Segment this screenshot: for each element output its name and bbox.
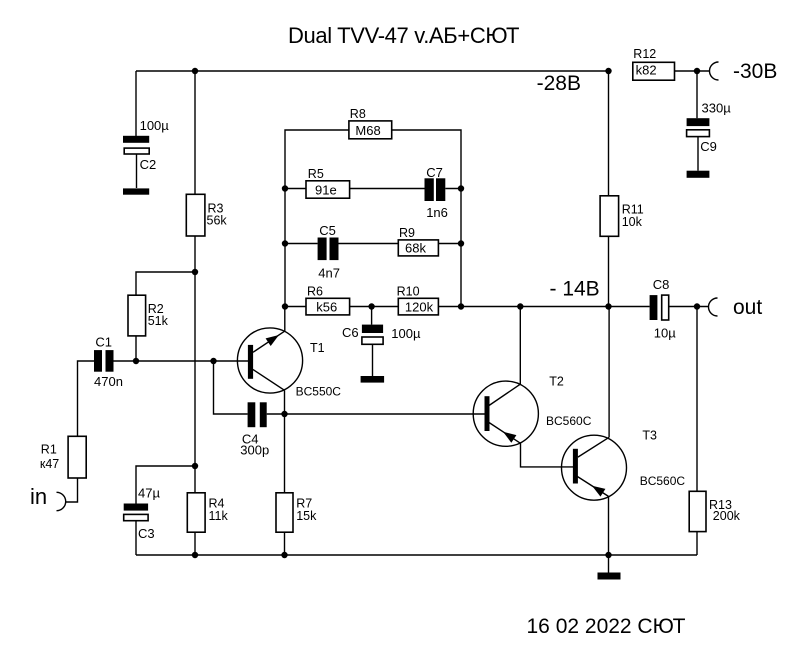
- resistor R3: [186, 194, 227, 236]
- resistor R1: [40, 436, 86, 478]
- svg-text:R1: R1: [41, 443, 57, 457]
- node junction top rail / R3: [192, 68, 198, 74]
- connector out: [709, 298, 718, 316]
- node junction left rail / R5 row: [282, 185, 288, 191]
- svg-text:47µ: 47µ: [138, 486, 160, 501]
- node junction left rail / C5 row: [282, 240, 288, 246]
- svg-text:C7: C7: [426, 165, 443, 180]
- svg-text:-30В: -30В: [733, 60, 777, 83]
- svg-text:68k: 68k: [405, 241, 426, 256]
- svg-text:BC550C: BC550C: [296, 384, 342, 398]
- capacitor C2: [123, 118, 169, 195]
- node junction T1 collector / C4 / R7: [281, 411, 287, 417]
- svg-text:R10: R10: [397, 285, 420, 299]
- wire R11 column: [608, 71, 610, 307]
- resistor R10: [397, 285, 439, 315]
- svg-text:91e: 91e: [315, 182, 337, 197]
- wire network left rail: [285, 130, 349, 307]
- transistor T1: [237, 328, 341, 398]
- svg-text:C9: C9: [700, 139, 717, 154]
- svg-text:C6: C6: [342, 325, 359, 340]
- svg-text:in: in: [30, 484, 47, 509]
- svg-text:10k: 10k: [622, 215, 643, 229]
- node junction base row / C4 branch: [210, 358, 216, 364]
- wire bottom rail: [136, 554, 697, 556]
- node junction bottom rail / R7: [281, 552, 287, 558]
- capacitor C8: [650, 277, 677, 340]
- capacitor C4: [240, 402, 269, 457]
- svg-text:T1: T1: [310, 341, 325, 355]
- capacitor C1: [94, 335, 123, 390]
- wire top rail: [136, 70, 710, 72]
- svg-text:C5: C5: [319, 223, 336, 238]
- resistor R12: [633, 47, 675, 80]
- svg-text:BC560C: BC560C: [640, 474, 686, 488]
- svg-text:M68: M68: [355, 123, 380, 138]
- svg-text:100µ: 100µ: [140, 118, 170, 133]
- svg-text:1n6: 1n6: [426, 205, 448, 220]
- transistor T3: [562, 429, 686, 501]
- capacitor C5: [318, 223, 340, 281]
- svg-text:k56: k56: [316, 300, 337, 315]
- svg-text:51k: 51k: [148, 314, 169, 328]
- resistor R2: [128, 295, 169, 336]
- svg-text:200k: 200k: [713, 509, 741, 523]
- wire C5 row: [285, 243, 461, 245]
- svg-text:k82: k82: [636, 63, 657, 78]
- ground: [598, 555, 621, 580]
- svg-text:out: out: [733, 296, 762, 319]
- node junction R3 column / C3 branch: [192, 463, 198, 469]
- svg-text:T2: T2: [549, 375, 564, 389]
- node junction R2 / base row: [133, 358, 139, 364]
- resistor R8: [349, 107, 392, 139]
- svg-text:56k: 56k: [207, 214, 228, 228]
- svg-text:4n7: 4n7: [318, 266, 340, 281]
- node junction R6-R10 / C6: [368, 303, 374, 309]
- node junction bottom rail / T3 emitter / ground: [605, 552, 611, 558]
- resistor R4: [187, 493, 228, 532]
- wire R7 drop: [284, 414, 286, 555]
- svg-text:R6: R6: [307, 285, 323, 299]
- svg-text:C8: C8: [653, 277, 670, 292]
- svg-text:к47: к47: [40, 457, 59, 471]
- wire T3 collector up: [608, 307, 610, 438]
- svg-text:R9: R9: [399, 226, 415, 240]
- node junction R11 / T3 collector / -14B rail: [605, 303, 611, 309]
- svg-text:R5: R5: [308, 167, 324, 181]
- node junction right rail / R9 row: [458, 240, 464, 246]
- svg-text:10µ: 10µ: [654, 325, 676, 340]
- node junction right rail / R10 row: [458, 303, 464, 309]
- node junction top rail / R11: [605, 68, 611, 74]
- svg-text:R8: R8: [350, 107, 366, 121]
- svg-text:R12: R12: [633, 47, 656, 61]
- wire C9 drop: [696, 71, 698, 118]
- svg-text:BC560C: BC560C: [546, 414, 592, 428]
- wire T2 emitter to T3 base: [521, 443, 574, 467]
- transistor T2: [473, 375, 591, 447]
- resistor R6: [306, 285, 350, 315]
- resistor R13: [689, 491, 740, 531]
- svg-text:120k: 120k: [405, 300, 434, 315]
- node junction R12 / C9 / -30B: [694, 68, 700, 74]
- wire R6 row: [285, 306, 709, 308]
- wire T2 collector up: [519, 307, 521, 385]
- wire C3 branch: [136, 466, 195, 555]
- svg-text:300p: 300p: [240, 443, 269, 458]
- svg-text:-28В: -28В: [537, 72, 581, 95]
- resistor R9: [398, 226, 438, 256]
- svg-text:100µ: 100µ: [391, 326, 421, 341]
- node junction bottom rail / R4: [192, 552, 198, 558]
- svg-text:330µ: 330µ: [702, 101, 732, 116]
- wire R2 branch: [136, 272, 195, 361]
- wire C2 drop: [135, 71, 137, 136]
- svg-text:C3: C3: [138, 526, 155, 541]
- svg-text:11k: 11k: [209, 509, 229, 523]
- svg-text:15k: 15k: [296, 509, 317, 523]
- wire C1 to R1: [66, 361, 94, 502]
- svg-text:470n: 470n: [94, 374, 123, 389]
- svg-text:C1: C1: [95, 335, 112, 350]
- node junction left rail / R6 row: [282, 303, 288, 309]
- wire T1 collector down: [284, 390, 286, 414]
- capacitor C3: [124, 486, 161, 542]
- svg-text:16 02 2022 СЮТ: 16 02 2022 СЮТ: [527, 615, 686, 638]
- node junction right rail / C7 row: [458, 185, 464, 191]
- wire R5 row: [285, 188, 461, 190]
- svg-text:Dual TVV-47 v.АБ+СЮТ: Dual TVV-47 v.АБ+СЮТ: [288, 23, 520, 48]
- wire T3 emitter down: [608, 496, 610, 555]
- wire network right rail: [392, 130, 461, 307]
- wire T1 emitter up: [284, 307, 286, 332]
- wire base row: [114, 360, 249, 362]
- capacitor C9: [687, 101, 732, 178]
- connector -30B: [710, 62, 719, 80]
- svg-text:C2: C2: [140, 157, 157, 172]
- wire R3 column: [194, 71, 196, 555]
- wire R13 column: [696, 307, 698, 556]
- capacitor C6: [342, 307, 421, 383]
- svg-text:- 14В: - 14В: [550, 278, 600, 301]
- svg-text:T3: T3: [642, 429, 657, 443]
- node junction R3 / R2 branch: [192, 269, 198, 275]
- wire C4 row: [214, 361, 486, 414]
- capacitor C7: [425, 165, 448, 220]
- resistor R7: [276, 493, 317, 532]
- connector in: [57, 492, 66, 510]
- resistor R11: [600, 196, 644, 237]
- node junction C8 / out / R13: [694, 303, 700, 309]
- resistor R5: [306, 167, 350, 198]
- node junction T2 collector / -14B rail: [517, 303, 523, 309]
